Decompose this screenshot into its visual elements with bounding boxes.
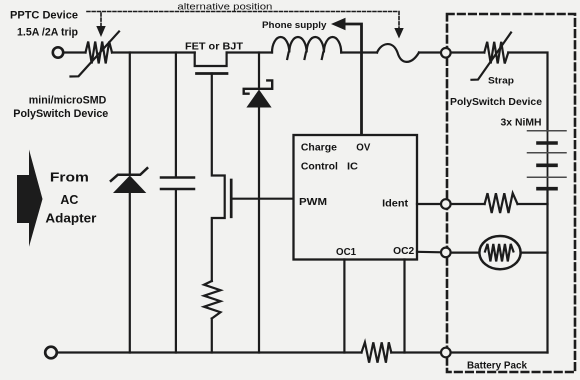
svg-text:FET or BJT: FET or BJT [185,41,244,53]
wire N1 to strap [451,51,485,53]
bottom rail wire right to node N4 [391,351,441,353]
thermistor TH1 ellipse [479,236,520,269]
wire OC2 pin to node N3 [417,251,441,254]
wire R4 to battery line [518,203,548,205]
svg-text:mini/microSMD: mini/microSMD [29,95,107,107]
resistor R4 (Ident) [485,193,518,213]
phone supply arrow head [331,18,346,30]
alternative-position squiggle wire [377,44,419,62]
op-amp U1 box Charge Control IC [294,135,418,260]
battery B1 cell2 negative plate [538,164,556,168]
wire Q1 gate to Q2 drain, Q2 channel path, Q2 source down [212,74,225,282]
battery B1 cell3 positive plate [528,176,567,178]
strap PolySwitch resistor R3 [484,42,508,64]
wire vertical at x259 (D2 branch) [258,53,260,89]
From AC Adapter arrow [17,150,43,247]
inductor L1 crossing ticks [287,53,288,60]
transistor Q1 channel (FET or BJT) [195,53,227,67]
svg-text:AC: AC [60,192,79,207]
svg-text:3x NiMH: 3x NiMH [501,118,542,129]
svg-text:OC2: OC2 [393,246,414,257]
dashed arrow to PPTC R1 [100,13,102,26]
battery B1 cell3 negative plate [538,187,556,191]
wire OC2 pin down to bottom rail [403,260,405,353]
svg-text:OC1: OC1 [336,247,356,258]
wire R2 to bottom rail [211,319,213,353]
svg-text:Phone supply: Phone supply [262,20,327,31]
phone supply arrow tail / wire down to IC OV [344,24,362,135]
wire Q2 gate to PWM pin [231,198,293,200]
wire D2 to bottom rail [258,108,260,353]
terminal J1 (input +) [53,47,63,57]
wire vertical at x130 (D1 branch) [129,53,131,174]
wire N3 to thermistor TH1 [451,252,480,254]
svg-text:From: From [50,170,89,185]
svg-text:Ident: Ident [382,199,409,210]
svg-text:IC: IC [347,161,358,172]
wire Q1 to node at zener D2 [227,51,272,53]
wire OC1 pin down to bottom rail [343,260,345,353]
wire TH1 to battery line [521,252,548,254]
battery B1 cell2 positive plate [528,152,567,154]
PPTC strike (R3) [472,33,512,80]
wire vertical at x176 (C1 branch) [175,53,177,177]
thermistor TH1 zigzag [485,244,513,262]
svg-text:PolySwitch Device: PolySwitch Device [450,97,542,108]
inductor L1 [272,37,341,53]
bottom rail wire left [57,351,362,353]
svg-text:PWM: PWM [299,197,327,208]
battery B1 cell1 negative plate [538,141,556,145]
battery pack dashed border [447,14,575,372]
zener D2 anode triangle [246,90,271,108]
capacitor C1 top plate [161,176,194,179]
svg-text:1.5A /2A trip: 1.5A /2A trip [17,27,78,39]
svg-text:PolySwitch Device: PolySwitch Device [13,108,108,120]
resistor R2 (below Q2) [204,281,221,319]
transistor Q2 gate bar [230,180,233,217]
PPTC strike (R1) [71,32,120,77]
wire N2 to resistor R4 [451,203,485,205]
zener D1 anode triangle [113,176,146,194]
node N4 (pack - terminal) [441,348,451,358]
wire strap to battery B1 [508,53,547,131]
zener D1 cathode bar [111,168,147,181]
wire J1 to R1 [64,51,86,53]
PPTC resistor R1 [86,42,113,64]
terminal J2 (input -) [45,347,57,359]
wire B1 negative to bottom rail [546,189,548,353]
capacitor C1 bottom plate [161,188,194,191]
wire squiggle to node N1 [419,51,441,53]
svg-text:Strap: Strap [488,76,515,86]
wire D1 to bottom rail [129,193,131,353]
zener D2 cathode bar [244,80,273,93]
dashed alternative-position line [87,12,399,29]
bottom rail wire inside pack [451,351,548,353]
wire L1 to squiggle [341,51,377,53]
battery B1 internal link [547,131,549,189]
node N3 (OC2/thermistor) [441,248,451,258]
battery B1 cell1 positive plate [528,130,567,132]
resistor R5 (bottom rail) [362,342,392,362]
svg-text:Control: Control [301,161,338,172]
svg-text:Charge: Charge [301,143,337,154]
dashed arrow to alternative position squiggle [394,28,403,39]
svg-text:alternative position: alternative position [177,1,272,12]
transistor Q1 gate bar [197,72,228,75]
node N2 (Ident) [441,199,451,209]
wire Ident pin to node N2 [417,203,441,205]
wire C1 to bottom rail [175,190,177,353]
node N1 (pack + terminal) [441,48,451,58]
wire R1 to FET Q1 [112,51,195,53]
svg-text:PPTC Device: PPTC Device [10,10,78,22]
svg-text:Adapter: Adapter [45,211,96,226]
svg-text:OV: OV [356,143,370,154]
svg-text:Battery Pack: Battery Pack [467,361,527,372]
